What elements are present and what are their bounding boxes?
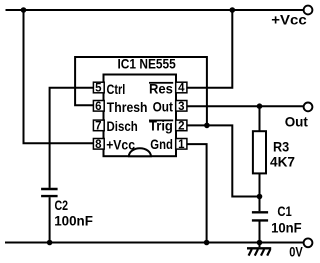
node junction C2/rail — [47, 240, 53, 246]
pin 7 box — [93, 120, 104, 131]
node junction Trig — [204, 123, 210, 129]
wire Thresh pin 6 over IC to Trig — [75, 57, 207, 125]
node junction R3/C1/Trig — [257, 194, 263, 200]
pin 6 box — [93, 101, 104, 112]
svg-text:0V: 0V — [289, 245, 303, 260]
svg-text:+Vcc: +Vcc — [106, 136, 135, 152]
op-amp/IC body U1 NE555 — [104, 75, 177, 157]
node junction top reset — [230, 7, 236, 13]
svg-text:2: 2 — [178, 121, 184, 133]
svg-text:4K7: 4K7 — [270, 154, 295, 169]
svg-text:C2: C2 — [55, 198, 69, 213]
svg-text:4: 4 — [178, 83, 185, 95]
ground chassis symbol — [247, 243, 271, 256]
svg-text:Out: Out — [153, 98, 174, 114]
node junction Gnd/rail — [204, 240, 210, 246]
wire node to C1 — [259, 197, 261, 212]
svg-text:+Vcc: +Vcc — [271, 13, 307, 28]
svg-text:Ctrl: Ctrl — [107, 81, 126, 97]
wire C2 to ground rail — [49, 197, 51, 242]
wire Out node to R3 — [259, 106, 261, 131]
node junction C1/rail — [257, 240, 263, 246]
svg-text:7: 7 — [95, 121, 101, 133]
terminal Out — [304, 103, 313, 112]
svg-text:6: 6 — [95, 101, 101, 113]
svg-text:C1: C1 — [277, 204, 292, 219]
pin 3 box — [176, 101, 187, 112]
svg-text:Disch: Disch — [107, 118, 138, 134]
svg-text:Out: Out — [285, 114, 309, 129]
pin 1 box — [176, 139, 187, 150]
svg-text:100nF: 100nF — [54, 214, 93, 229]
svg-text:IC1 NE555: IC1 NE555 — [118, 56, 176, 72]
svg-text:10nF: 10nF — [271, 220, 302, 235]
resistor R3 — [253, 131, 266, 173]
IC notch — [129, 148, 151, 156]
wire reset pin 4 to +Vcc rail — [187, 9, 233, 88]
svg-text:Gnd: Gnd — [150, 136, 173, 152]
pin 4 box — [176, 82, 187, 93]
wire Trig pin 2 to R3/C1 node — [187, 125, 260, 196]
pin 2 box — [176, 120, 187, 131]
terminal +Vcc — [304, 6, 313, 15]
wire Ctrl pin 5 to C2 — [50, 88, 94, 188]
wire Out pin 3 to Out terminal — [187, 105, 304, 107]
svg-text:8: 8 — [95, 139, 102, 151]
capacitor C1 — [252, 212, 268, 220]
node junction Out/R3 — [257, 103, 263, 109]
wire Gnd pin 1 to ground rail — [187, 144, 207, 242]
svg-text:5: 5 — [95, 83, 102, 95]
wire C1 to ground rail — [259, 222, 261, 243]
svg-text:Thresh: Thresh — [107, 99, 148, 115]
pin 8 box — [93, 139, 104, 150]
svg-text:1: 1 — [178, 139, 185, 151]
wire bottom 0V rail — [5, 242, 304, 244]
wire +Vcc to pin 8 — [24, 9, 94, 143]
svg-text:3: 3 — [178, 101, 184, 113]
svg-text:R3: R3 — [273, 140, 289, 155]
terminal 0V — [304, 238, 313, 247]
wire R3 to node — [259, 173, 261, 196]
wire top +Vcc rail — [6, 9, 304, 11]
capacitor C2 — [41, 189, 58, 196]
node junction top-left — [21, 7, 27, 13]
pin 5 box — [93, 82, 104, 93]
